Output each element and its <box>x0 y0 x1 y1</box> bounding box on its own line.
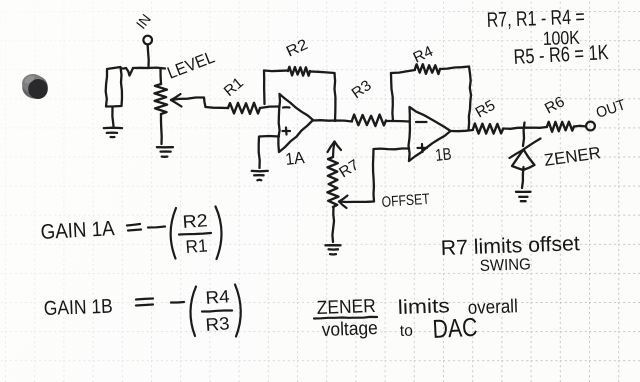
resistor R3 <box>352 115 386 126</box>
svg-text:DAC: DAC <box>432 312 479 344</box>
ground <box>516 192 531 201</box>
ground <box>104 128 122 137</box>
label OUT <box>594 96 628 121</box>
svg-text:R2: R2 <box>182 210 208 232</box>
resistor R5 <box>473 124 503 134</box>
black knob (photo of round magnet) <box>22 74 48 99</box>
label R6 <box>542 93 568 117</box>
input terminal <box>143 36 152 45</box>
label R1 <box>221 74 247 100</box>
resistor R2 feedback <box>264 67 335 121</box>
wire <box>159 69 162 85</box>
potentiometer R7 <box>327 142 341 208</box>
svg-text:ZENER: ZENER <box>316 296 376 319</box>
formula gain 1B <box>43 285 240 337</box>
wiper arrow wire OFFSET <box>339 149 409 209</box>
output terminal <box>586 122 595 131</box>
svg-text:R4: R4 <box>205 286 230 308</box>
svg-text:R7 limits offset: R7 limits offset <box>440 232 580 260</box>
svg-text:GAIN 1B: GAIN 1B <box>43 296 113 320</box>
note resistor values <box>486 6 609 69</box>
input box resistor <box>106 67 122 107</box>
resistor R4 feedback <box>391 64 471 130</box>
svg-text:R3: R3 <box>205 313 230 335</box>
svg-text:voltage: voltage <box>321 318 378 341</box>
op-amp 1B <box>409 107 451 161</box>
label 1A <box>284 148 305 169</box>
svg-text:1A: 1A <box>284 148 305 169</box>
wire <box>503 127 547 129</box>
wire <box>386 120 409 123</box>
svg-text:to: to <box>400 323 414 340</box>
wire <box>313 120 352 121</box>
wire <box>148 45 149 68</box>
wire <box>259 136 279 168</box>
label LEVEL <box>165 47 218 82</box>
wire <box>122 68 166 76</box>
note zener limits voltage <box>314 295 518 344</box>
label R3 <box>349 77 375 102</box>
wire <box>451 130 474 131</box>
potentiometer LEVEL <box>155 84 168 114</box>
svg-text:1B: 1B <box>434 144 452 165</box>
label R5 <box>473 97 499 122</box>
wire <box>112 107 113 127</box>
svg-text:OFFSET: OFFSET <box>381 191 430 211</box>
label IN <box>133 11 154 32</box>
label R4 <box>411 43 436 67</box>
ground <box>325 245 340 254</box>
ground <box>157 147 173 157</box>
wire <box>574 125 586 128</box>
zener diode <box>510 123 541 189</box>
label ZENER <box>543 143 602 170</box>
svg-text:SWING: SWING <box>480 256 532 275</box>
wire <box>332 207 334 242</box>
formula gain 1A <box>40 207 221 260</box>
op-amp 1A <box>278 94 313 152</box>
resistor R1 <box>228 103 260 114</box>
label R2 <box>284 36 311 61</box>
svg-text:R1: R1 <box>185 236 208 257</box>
label OFFSET <box>381 191 430 211</box>
ground <box>252 171 268 180</box>
wire <box>260 107 279 109</box>
label R7 <box>336 156 362 181</box>
note R7 limits offset swing <box>440 232 580 275</box>
label 1B <box>434 144 452 165</box>
wiper arrow wire <box>171 94 228 108</box>
svg-text:GAIN 1A: GAIN 1A <box>40 217 115 244</box>
resistor R6 <box>547 122 574 132</box>
wire <box>160 114 163 144</box>
